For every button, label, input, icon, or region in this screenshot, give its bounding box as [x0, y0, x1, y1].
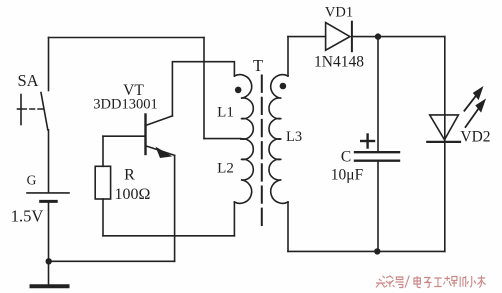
ground — [32, 261, 68, 286]
wire: bottom rail right — [288, 250, 445, 252]
switch SA — [18, 93, 48, 130]
phase dot L3 — [280, 83, 287, 90]
transistor VT (Q1) — [146, 115, 175, 159]
diode VD1 — [326, 22, 352, 52]
transformer core T — [261, 76, 263, 226]
svg-text:VD2: VD2 — [460, 129, 490, 146]
svg-text:L1: L1 — [217, 104, 234, 120]
polarity plus sign — [361, 135, 374, 148]
phase dot L1 — [235, 87, 242, 94]
resistor R1 — [95, 136, 110, 236]
svg-text:1.5V: 1.5V — [11, 207, 44, 226]
wire: L3 top lead — [287, 37, 289, 76]
svg-text:T: T — [253, 56, 263, 75]
winding L2 — [234, 139, 253, 204]
svg-text:R: R — [124, 167, 135, 184]
svg-text:10μF: 10μF — [331, 167, 364, 184]
junction: capacitor negative node — [374, 248, 380, 254]
wire: switch top lead — [48, 38, 50, 91]
svg-text:1N4148: 1N4148 — [314, 54, 364, 71]
svg-text:G: G — [27, 173, 37, 188]
svg-text:VD1: VD1 — [325, 5, 353, 21]
wire: emitter to bottom rail — [174, 155, 176, 261]
svg-text:L2: L2 — [217, 161, 234, 177]
wire: VD2 bottom lead — [444, 142, 446, 252]
watermark 头条号 / 电子工程师小李 — [376, 276, 486, 288]
wire: center tap to winding — [204, 138, 241, 140]
capacitor C — [355, 37, 399, 252]
wire: feedback L2 bottom to R — [103, 235, 234, 237]
LED VD2 — [427, 115, 460, 142]
winding L3 — [269, 75, 288, 204]
junction: rectified output node — [375, 33, 381, 39]
wire: collector to L1 top — [172, 62, 234, 116]
wire: switch to battery — [48, 130, 50, 192]
wire: L3 bottom lead — [287, 202, 289, 251]
wire: bottom rail left — [49, 260, 175, 262]
svg-text:C: C — [341, 149, 351, 166]
wire: cathode to VD2 lead — [352, 36, 445, 38]
winding L1 — [234, 75, 253, 140]
LED arrow 2 — [466, 99, 487, 128]
wire: battery to bottom rail — [48, 201, 50, 261]
wire: L2 bottom lead — [233, 202, 235, 236]
svg-text:SA: SA — [17, 71, 38, 90]
svg-text:100Ω: 100Ω — [115, 186, 151, 203]
svg-text:3DD13001: 3DD13001 — [93, 97, 157, 113]
junction: battery negative node — [46, 258, 52, 264]
wire: VD2 top lead — [444, 37, 446, 115]
wire: top rail down to center tap — [203, 38, 205, 139]
LED arrow 1 — [464, 86, 483, 111]
svg-text:L3: L3 — [286, 129, 302, 145]
wire: base wire — [103, 135, 146, 137]
battery G — [27, 193, 69, 202]
wire: top rail left — [49, 37, 205, 39]
wire: top rail right (anode side) — [288, 36, 326, 38]
